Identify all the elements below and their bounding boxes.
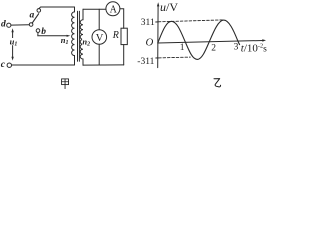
terminal a bbox=[37, 9, 41, 13]
svg-text:311: 311 bbox=[141, 18, 155, 28]
primary coil n1 bbox=[72, 7, 75, 65]
tap arrowhead bbox=[67, 35, 71, 37]
dashed line +311 bbox=[158, 20, 222, 22]
resistor R bbox=[121, 28, 127, 44]
svg-text:-311: -311 bbox=[137, 57, 154, 67]
wire V to bottom bbox=[98, 44, 100, 65]
svg-text:u/V: u/V bbox=[160, 0, 178, 14]
label yi (figure B) bbox=[214, 79, 221, 87]
dashed line -311 bbox=[159, 56, 191, 59]
svg-text:R: R bbox=[112, 30, 119, 41]
voltage arrow u1 bbox=[12, 31, 14, 57]
secondary top wire bbox=[83, 8, 106, 10]
voltmeter branch wire bbox=[98, 9, 100, 29]
voltmeter V bbox=[92, 30, 107, 45]
x-axis bbox=[158, 41, 263, 44]
svg-text:t/10-2s: t/10-2s bbox=[241, 42, 267, 54]
label u1 bbox=[9, 38, 17, 45]
switch blade bbox=[32, 14, 39, 23]
terminal b bbox=[36, 29, 40, 33]
svg-text:d: d bbox=[1, 20, 6, 30]
terminal c bbox=[7, 63, 11, 67]
svg-text:a: a bbox=[30, 10, 35, 20]
wire a to transformer top bbox=[39, 7, 75, 9]
tick +311 bbox=[156, 21, 158, 23]
svg-text:V: V bbox=[96, 33, 104, 44]
wire c to transformer bottom bbox=[12, 64, 75, 66]
wire b tap bbox=[38, 32, 68, 35]
svg-text:A: A bbox=[110, 4, 118, 15]
svg-text:3: 3 bbox=[234, 43, 239, 53]
ammeter A bbox=[106, 2, 120, 16]
sine wave bbox=[158, 20, 240, 59]
svg-text:O: O bbox=[146, 36, 154, 48]
svg-text:1: 1 bbox=[180, 43, 185, 53]
wire d to switch pivot bbox=[11, 24, 29, 26]
wire R to bottom bbox=[123, 45, 125, 65]
secondary bottom wire bbox=[83, 64, 124, 66]
y-axis bbox=[157, 6, 159, 68]
tick -311 bbox=[156, 57, 158, 59]
transformer core bbox=[77, 11, 79, 61]
switch pivot bbox=[29, 23, 33, 27]
secondary coil n2 bbox=[80, 9, 83, 65]
label jia (figure A) bbox=[62, 79, 69, 89]
wire A to R branch bbox=[120, 9, 124, 28]
svg-text:2: 2 bbox=[211, 43, 216, 53]
terminal d bbox=[7, 23, 11, 27]
label n2 bbox=[82, 38, 90, 45]
